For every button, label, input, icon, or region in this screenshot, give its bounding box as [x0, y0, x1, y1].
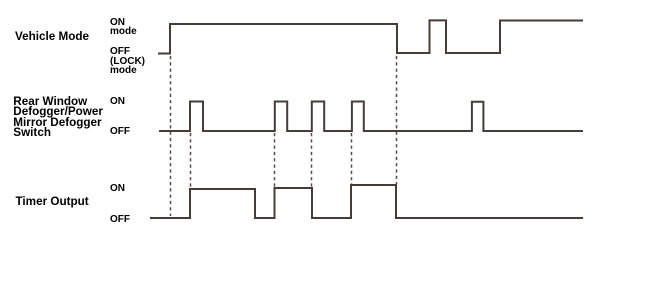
switch waveform — [159, 102, 583, 132]
label OFF (LOCK) mode (vehicle) — [110, 47, 145, 75]
label ON (timer) — [110, 184, 125, 193]
label ON mode (vehicle) — [110, 18, 137, 37]
dashed line x=170 vehicle-rise to timer baseline — [170, 56, 172, 216]
dashed line x=311.8 switch-p3-rise to timer fall — [311, 133, 313, 187]
vehicle mode waveform — [158, 20, 583, 53]
dashed line x=274.5 switch-p2-rise to timer fall — [274, 133, 276, 187]
label Rear Window Defogger/Power Mirror Defogger Switch — [13, 97, 103, 139]
dashed line x=396 vehicle-fall to timer fall — [396, 56, 398, 184]
dashed line x=190 switch-p1-rise to timer rise — [190, 133, 192, 187]
label ON (switch) — [110, 97, 125, 106]
label OFF (timer) — [110, 215, 130, 224]
label Timer Output — [16, 197, 89, 208]
label OFF (switch) — [110, 127, 130, 136]
dashed line x=351.5 switch-p4-rise to timer rise — [351, 133, 353, 184]
timer output waveform — [150, 185, 583, 218]
label Vehicle Mode — [15, 32, 89, 43]
